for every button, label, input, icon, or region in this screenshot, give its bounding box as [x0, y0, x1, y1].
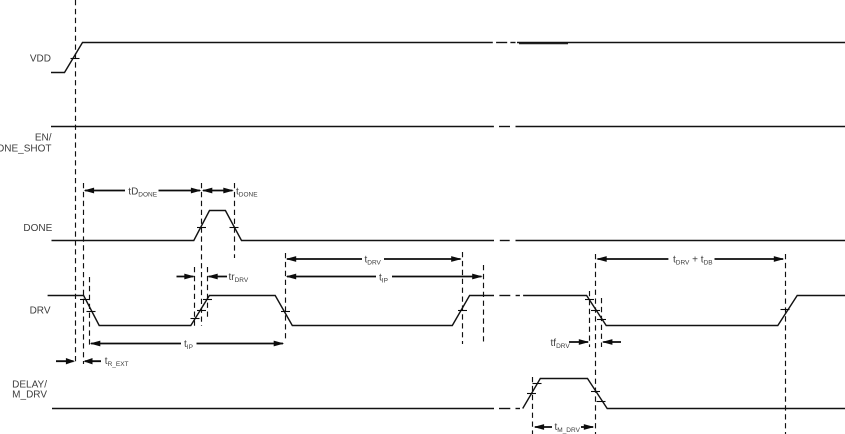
svg-text:tR_EXT: tR_EXT	[105, 356, 129, 368]
svg-text:M_DRV: M_DRV	[12, 389, 47, 400]
svg-text:tDONE: tDONE	[236, 187, 258, 199]
svg-text:tM_DRV: tM_DRV	[555, 422, 581, 434]
svg-text:tIP: tIP	[184, 339, 193, 351]
svg-text:DRV: DRV	[30, 306, 51, 317]
svg-text:trDRV: trDRV	[229, 272, 249, 284]
svg-text:VDD: VDD	[30, 53, 51, 64]
svg-text:tDDONE: tDDONE	[128, 187, 157, 199]
svg-text:tDRV: tDRV	[365, 255, 382, 267]
svg-text:ONE_SHOT: ONE_SHOT	[0, 144, 52, 155]
svg-text:tIP: tIP	[379, 273, 388, 285]
svg-text:EN/: EN/	[35, 133, 52, 144]
svg-text:DONE: DONE	[23, 223, 52, 234]
svg-text:tDRV + tDB: tDRV + tDB	[673, 255, 713, 267]
svg-text:tfDRV: tfDRV	[551, 338, 571, 350]
